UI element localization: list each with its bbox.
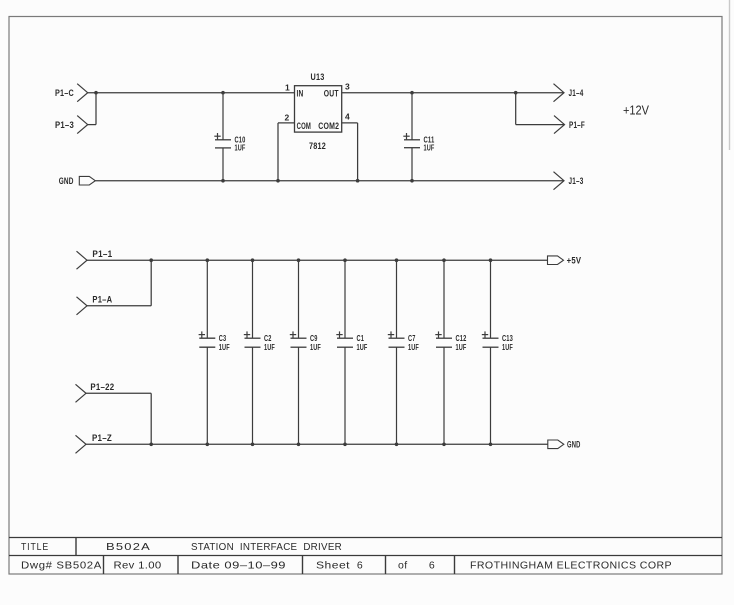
svg-text:1UF: 1UF — [219, 343, 230, 352]
svg-text:+5V: +5V — [567, 256, 582, 267]
svg-text:C7: C7 — [408, 334, 416, 343]
svg-text:P1–3: P1–3 — [55, 120, 74, 131]
svg-text:COM2: COM2 — [318, 121, 339, 131]
svg-text:C9: C9 — [310, 334, 318, 343]
svg-text:C1: C1 — [357, 334, 365, 343]
svg-text:1UF: 1UF — [264, 343, 275, 352]
svg-text:P1–A: P1–A — [92, 295, 112, 306]
svg-text:OUT: OUT — [324, 89, 339, 99]
svg-text:TITLE: TITLE — [21, 541, 49, 553]
svg-text:Dwg# SB502A: Dwg# SB502A — [21, 560, 102, 572]
svg-text:B502A: B502A — [106, 541, 151, 553]
svg-text:J1–4: J1–4 — [569, 88, 584, 99]
svg-text:Sheet: Sheet — [316, 560, 350, 572]
svg-text:1UF: 1UF — [310, 343, 321, 352]
svg-text:P1–C: P1–C — [55, 88, 74, 99]
svg-text:P1–F: P1–F — [569, 120, 585, 131]
svg-text:J1–3: J1–3 — [569, 176, 584, 187]
svg-text:C12: C12 — [456, 334, 467, 343]
svg-text:6: 6 — [429, 560, 435, 572]
svg-text:+12V: +12V — [623, 103, 649, 118]
svg-text:P1–1: P1–1 — [92, 249, 112, 260]
svg-text:of: of — [398, 560, 408, 572]
svg-text:1UF: 1UF — [357, 343, 368, 352]
svg-text:4: 4 — [345, 112, 350, 122]
svg-text:Date 09–10–99: Date 09–10–99 — [191, 560, 286, 572]
svg-text:GND: GND — [567, 440, 581, 451]
svg-text:GND: GND — [59, 176, 74, 187]
svg-text:C3: C3 — [219, 334, 227, 343]
svg-text:C13: C13 — [502, 334, 513, 343]
svg-text:1UF: 1UF — [456, 343, 467, 352]
svg-text:1UF: 1UF — [502, 343, 513, 352]
svg-text:1: 1 — [285, 82, 290, 92]
svg-text:Rev 1.00: Rev 1.00 — [114, 560, 162, 572]
svg-text:7812: 7812 — [309, 141, 326, 152]
svg-text:6: 6 — [357, 560, 363, 572]
svg-text:2: 2 — [284, 112, 289, 122]
svg-text:1UF: 1UF — [424, 143, 435, 152]
svg-text:U13: U13 — [311, 72, 325, 83]
svg-text:COM: COM — [297, 121, 312, 131]
svg-text:P1–22: P1–22 — [90, 382, 114, 393]
svg-text:3: 3 — [345, 82, 350, 92]
svg-text:1UF: 1UF — [235, 144, 246, 153]
svg-text:IN: IN — [297, 89, 304, 99]
svg-text:FROTHINGHAM ELECTRONICS CORP: FROTHINGHAM ELECTRONICS CORP — [470, 560, 672, 572]
svg-text:P1–Z: P1–Z — [92, 433, 112, 444]
svg-text:STATION INTERFACE DRIVER: STATION INTERFACE DRIVER — [191, 541, 342, 553]
svg-text:C2: C2 — [264, 334, 272, 343]
svg-text:1UF: 1UF — [408, 343, 419, 352]
